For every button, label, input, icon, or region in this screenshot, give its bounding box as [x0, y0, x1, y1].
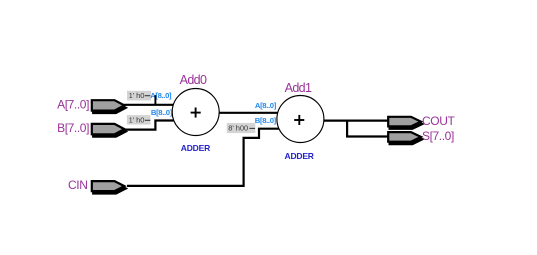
svg-text:B[8..0]: B[8..0] — [255, 116, 277, 125]
wire Add1 output — [323, 119, 388, 121]
svg-text:A[7..0]: A[7..0] — [57, 97, 89, 111]
svg-text:B[7..0]: B[7..0] — [57, 121, 89, 135]
wire junction branch to S[7..0] — [347, 121, 387, 137]
plus sign Add0 — [191, 112, 201, 114]
adder Add1 — [277, 96, 324, 143]
input pin CIN — [92, 181, 126, 193]
constant label 8'h00 (Add1 B input) — [227, 123, 256, 133]
svg-text:CIN: CIN — [68, 178, 87, 192]
svg-text:B[8..0]: B[8..0] — [151, 108, 173, 117]
wire 1'h0 tap to A wire — [154, 95, 156, 105]
adder Add0 — [172, 89, 219, 136]
svg-text:COUT: COUT — [422, 114, 455, 128]
svg-text:1' h0: 1' h0 — [129, 115, 145, 124]
wire CIN to Add1 B input — [127, 129, 280, 186]
svg-text:Add0: Add0 — [180, 73, 207, 87]
plus sign Add1 — [294, 119, 304, 121]
svg-text:ADDER: ADDER — [285, 151, 314, 161]
svg-text:8' h00: 8' h00 — [228, 124, 248, 133]
svg-text:S[7..0]: S[7..0] — [422, 129, 454, 143]
svg-text:A[8..0]: A[8..0] — [150, 91, 172, 100]
svg-text:Add1: Add1 — [285, 81, 312, 95]
constant label 1'h0 (Add0 B input) — [127, 115, 151, 125]
constant label 1'h0 (Add0 A input) — [127, 91, 151, 101]
svg-text:ADDER: ADDER — [181, 143, 210, 153]
input pin A[7..0] — [92, 100, 126, 113]
svg-text:1' h0: 1' h0 — [129, 91, 145, 100]
wire B[7..0] to Add0 — [124, 121, 175, 130]
wire Add0 output to Add1 A input — [218, 112, 278, 114]
wire A[7..0] to Add0 — [124, 104, 174, 106]
input pin B[7..0] — [92, 124, 126, 137]
output pin S[7..0] — [388, 132, 422, 144]
svg-text:A[8..0]: A[8..0] — [255, 101, 277, 110]
output pin COUT — [388, 117, 422, 129]
